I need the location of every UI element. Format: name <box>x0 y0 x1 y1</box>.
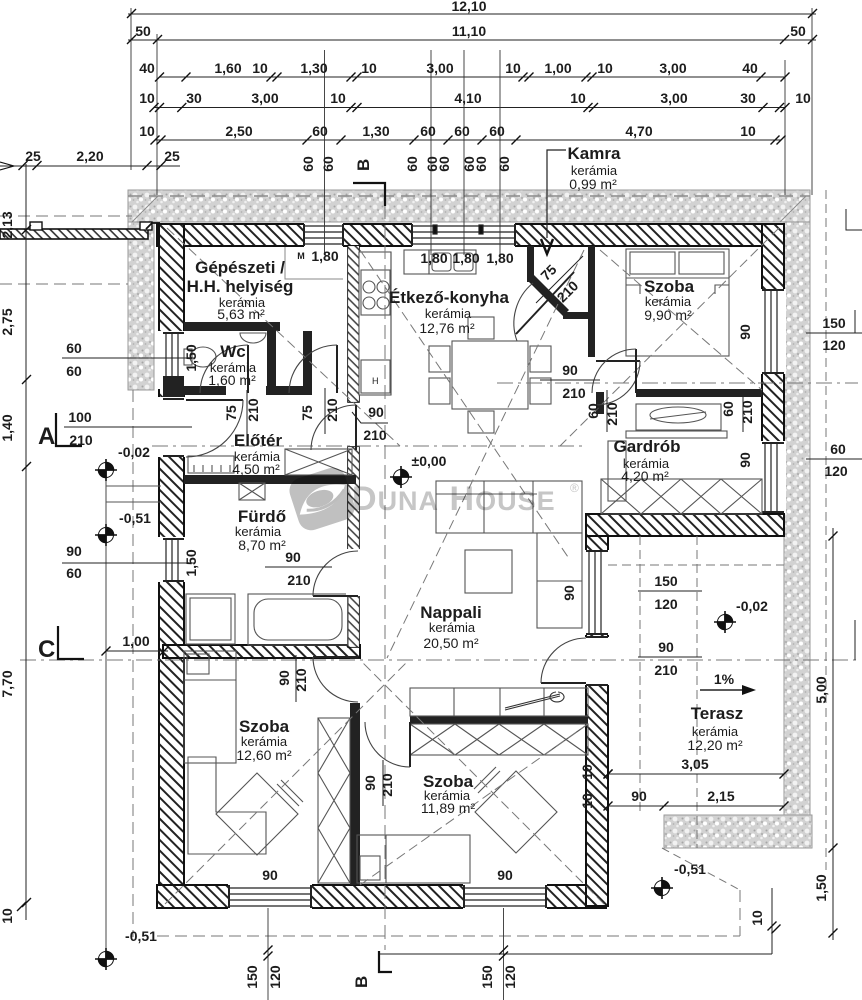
svg-text:10: 10 <box>252 60 268 76</box>
svg-text:1,00: 1,00 <box>122 633 149 649</box>
svg-text:1,50: 1,50 <box>813 874 829 901</box>
svg-text:10: 10 <box>139 123 155 139</box>
svg-text:90: 90 <box>737 452 753 468</box>
kitchen sink top <box>429 250 476 274</box>
svg-text:60: 60 <box>66 340 82 356</box>
svg-text:B: B <box>354 159 373 171</box>
svg-text:Gépészeti /: Gépészeti / <box>195 258 285 277</box>
szoba BL door <box>313 656 358 658</box>
svg-text:1,80: 1,80 <box>311 248 338 264</box>
svg-text:10: 10 <box>795 90 811 106</box>
svg-text:M: M <box>297 251 305 261</box>
svg-text:90: 90 <box>737 324 753 340</box>
tv board bottom of nappali <box>410 688 588 716</box>
ridge / section dash-dot lines <box>152 445 586 447</box>
window top small <box>304 226 343 244</box>
svg-text:90: 90 <box>497 867 513 883</box>
left retaining wall outside <box>0 222 160 239</box>
svg-text:40: 40 <box>742 60 758 76</box>
svg-text:Kamra: Kamra <box>568 144 621 163</box>
chair diamond bottom-left <box>216 773 298 855</box>
svg-text:kerámia: kerámia <box>429 620 476 635</box>
svg-text:4,50 m²: 4,50 m² <box>232 461 280 477</box>
svg-text:kerámia: kerámia <box>425 306 472 321</box>
svg-text:Gardrób: Gardrób <box>613 437 680 456</box>
main wall top <box>157 223 784 247</box>
svg-text:50: 50 <box>790 23 806 39</box>
svg-text:40: 40 <box>139 60 155 76</box>
svg-text:75: 75 <box>223 405 239 421</box>
window left bath <box>166 539 178 581</box>
svg-text:11,89 m²: 11,89 m² <box>421 800 476 816</box>
dashed joint line inside top insulation <box>128 195 810 197</box>
svg-text:12,60 m²: 12,60 m² <box>236 747 292 763</box>
window bottom left room <box>229 888 311 906</box>
insulation band left upper <box>128 222 154 390</box>
svg-text:60: 60 <box>66 565 82 581</box>
svg-text:210: 210 <box>363 427 387 443</box>
svg-text:90: 90 <box>362 775 378 791</box>
svg-text:3,00: 3,00 <box>659 60 686 76</box>
window left wc <box>166 333 178 388</box>
svg-text:-0,51: -0,51 <box>125 928 157 944</box>
door gap terrace wall <box>584 637 610 685</box>
svg-text:1,50: 1,50 <box>183 549 199 576</box>
svg-text:60: 60 <box>420 123 436 139</box>
svg-text:60: 60 <box>436 156 452 172</box>
svg-text:1,40: 1,40 <box>0 414 15 441</box>
svg-text:150: 150 <box>479 965 495 989</box>
svg-text:9,90 m²: 9,90 m² <box>644 307 692 323</box>
svg-text:60: 60 <box>489 123 505 139</box>
elevation star markers <box>95 459 736 970</box>
svg-text:30: 30 <box>186 90 202 106</box>
svg-text:4,10: 4,10 <box>454 90 481 106</box>
svg-text:-0,02: -0,02 <box>118 444 150 460</box>
window gap left wall bath <box>157 537 186 582</box>
wardrobe column between bottom rooms <box>318 718 350 883</box>
shelf under szoba TR <box>608 441 626 501</box>
svg-text:120: 120 <box>824 463 848 479</box>
window gap terrace wall <box>584 550 610 635</box>
sofa L <box>436 481 582 533</box>
svg-text:Előtér: Előtér <box>234 431 283 450</box>
svg-text:1,80: 1,80 <box>486 250 513 266</box>
svg-text:±0,00: ±0,00 <box>412 453 447 469</box>
svg-text:10: 10 <box>740 123 756 139</box>
partition vertical between rooms bottom <box>350 658 360 885</box>
svg-text:60: 60 <box>830 441 846 457</box>
bottom dashed elevation line <box>157 935 740 937</box>
svg-text:5,00: 5,00 <box>813 676 829 703</box>
svg-text:10: 10 <box>330 90 346 106</box>
szoba TR door <box>635 349 637 393</box>
coffee table <box>465 550 512 593</box>
svg-text:30: 30 <box>740 90 756 106</box>
window terrace wall <box>589 551 601 634</box>
bed top right room <box>626 249 729 356</box>
left vertical chain <box>25 164 27 920</box>
window labels 1,80 <box>297 248 514 266</box>
window niche lines gepeszeti <box>285 247 343 279</box>
insulation band top <box>128 190 812 848</box>
kamra bottom stub <box>563 312 589 319</box>
svg-text:1,60 m²: 1,60 m² <box>208 372 256 388</box>
svg-text:60: 60 <box>66 363 82 379</box>
svg-text:1,30: 1,30 <box>362 123 389 139</box>
svg-text:25: 25 <box>25 148 41 164</box>
svg-text:12,20 m²: 12,20 m² <box>687 737 743 753</box>
svg-text:1,80: 1,80 <box>452 250 479 266</box>
wall terrace side <box>586 536 608 906</box>
partition wc bottom / eloter top <box>184 386 226 395</box>
kamra left wall <box>527 246 534 282</box>
svg-text:2,15: 2,15 <box>707 788 734 804</box>
wall bottom of gardrob <box>586 514 784 536</box>
svg-text:Étkező-konyha: Étkező-konyha <box>389 288 510 307</box>
svg-text:5,63 m²: 5,63 m² <box>217 306 265 322</box>
svg-text:90: 90 <box>561 585 577 601</box>
svg-text:2,13: 2,13 <box>0 211 15 238</box>
insulation band right <box>784 222 810 848</box>
terrace dashed outline <box>608 564 784 566</box>
svg-text:1,50: 1,50 <box>183 344 199 371</box>
svg-text:12,76 m²: 12,76 m² <box>419 320 475 336</box>
svg-text:3,00: 3,00 <box>660 90 687 106</box>
window gap bottom left room <box>228 883 312 910</box>
svg-text:4,70: 4,70 <box>625 123 652 139</box>
kamra diagonal wall <box>527 274 569 316</box>
svg-text:90: 90 <box>66 543 82 559</box>
kamra right wall <box>588 246 595 357</box>
svg-text:10: 10 <box>570 90 586 106</box>
szoba BM door <box>409 722 411 767</box>
svg-text:10: 10 <box>139 90 155 106</box>
desk bottom-left <box>188 757 266 854</box>
svg-text:10: 10 <box>0 908 15 924</box>
window gap right wall bedroom <box>760 289 786 374</box>
svg-text:210: 210 <box>654 662 678 678</box>
svg-text:4,20 m²: 4,20 m² <box>621 468 669 484</box>
wall left <box>159 224 184 906</box>
svg-text:100: 100 <box>68 409 92 425</box>
svg-text:90: 90 <box>368 404 384 420</box>
svg-text:60: 60 <box>404 156 420 172</box>
kamra leader <box>547 150 566 238</box>
bottom witness lines + labels <box>106 470 504 1000</box>
window gap bottom middle room <box>463 883 547 910</box>
svg-text:90: 90 <box>285 549 301 565</box>
svg-text:1,80: 1,80 <box>420 250 447 266</box>
svg-text:H: H <box>372 376 379 386</box>
watermark duna house <box>286 464 579 533</box>
svg-text:3,00: 3,00 <box>426 60 453 76</box>
left outside dashed <box>0 215 132 217</box>
svg-text:150: 150 <box>822 315 846 331</box>
svg-text:10: 10 <box>579 793 595 809</box>
window gap top wall small (Wc niche) <box>304 223 343 247</box>
partition wc right <box>267 331 276 395</box>
bath bottom bearing wall <box>163 645 360 658</box>
window gap right wall wardrobe-room <box>760 441 786 514</box>
top dimension chains <box>0 8 816 255</box>
gardrob wardrobe X row <box>601 479 762 514</box>
eloter bench <box>188 456 234 473</box>
svg-text:210: 210 <box>379 773 395 797</box>
svg-text:60: 60 <box>585 403 601 419</box>
svg-text:8,70 m²: 8,70 m² <box>238 537 286 553</box>
partition niche right <box>303 331 312 395</box>
rotated inner labels <box>183 261 755 809</box>
wall bottom <box>157 885 606 908</box>
svg-text:120: 120 <box>822 337 846 353</box>
svg-text:90: 90 <box>658 639 674 655</box>
svg-text:-0,02: -0,02 <box>736 598 768 614</box>
svg-text:2,75: 2,75 <box>0 308 15 335</box>
svg-text:20,50 m²: 20,50 m² <box>423 635 479 651</box>
svg-text:90: 90 <box>262 867 278 883</box>
kamra diagonal door <box>516 272 574 334</box>
right vertical chain 5,00 <box>379 209 862 954</box>
bath door <box>313 595 358 597</box>
witness verticals <box>131 8 812 255</box>
top dim labels <box>25 0 811 164</box>
svg-text:120: 120 <box>502 965 518 989</box>
svg-text:210: 210 <box>562 385 586 401</box>
kitchen counter <box>359 252 391 395</box>
svg-text:Wc: Wc <box>220 342 246 361</box>
svg-text:3,05: 3,05 <box>681 756 708 772</box>
svg-text:210: 210 <box>245 398 261 422</box>
terrace door <box>541 682 586 684</box>
svg-text:210: 210 <box>324 398 340 422</box>
rotated 60 labels top <box>300 156 512 172</box>
wc toilet <box>190 347 216 367</box>
partition gepeszeti bottom <box>184 322 280 331</box>
wc sink <box>240 333 266 343</box>
svg-text:7,70: 7,70 <box>0 670 15 697</box>
svg-text:120: 120 <box>267 965 283 989</box>
dining table <box>452 341 528 409</box>
svg-text:®: ® <box>570 481 579 495</box>
svg-text:10: 10 <box>749 910 765 926</box>
bed bottom-left room <box>184 651 236 763</box>
wc door <box>247 345 249 393</box>
svg-text:10: 10 <box>579 764 595 780</box>
svg-text:90: 90 <box>631 788 647 804</box>
ticks <box>0 9 817 170</box>
entrance door <box>186 399 243 401</box>
entrance door gap left wall <box>157 397 186 457</box>
bed bottom-middle room <box>357 835 470 883</box>
svg-text:210: 210 <box>287 572 311 588</box>
svg-text:150: 150 <box>654 573 678 589</box>
entrance step lines <box>106 486 161 502</box>
inner door/window dimension labels <box>62 256 784 806</box>
svg-text:1,00: 1,00 <box>544 60 571 76</box>
window top kitchen <box>412 226 515 244</box>
svg-text:A: A <box>38 423 55 450</box>
svg-text:10: 10 <box>505 60 521 76</box>
svg-text:H.H. helyiség: H.H. helyiség <box>187 277 294 296</box>
svg-text:75: 75 <box>299 405 315 421</box>
svg-text:1%: 1% <box>714 671 735 687</box>
bath tub <box>248 594 348 645</box>
window right gardrob <box>765 443 777 512</box>
chair diamond bottom-middle <box>475 771 557 853</box>
window right bedroom <box>765 290 777 373</box>
gardrob dressing table <box>636 404 721 430</box>
svg-text:12,10: 12,10 <box>451 0 486 14</box>
svg-text:90: 90 <box>562 362 578 378</box>
eloter-kitchen door <box>355 405 357 450</box>
svg-text:1,30: 1,30 <box>300 60 327 76</box>
svg-text:B: B <box>352 976 371 988</box>
svg-text:C: C <box>38 636 55 663</box>
svg-text:60: 60 <box>312 123 328 139</box>
roof hip dashed diagonals <box>167 228 400 446</box>
washing machine <box>186 594 235 644</box>
svg-text:1,60: 1,60 <box>214 60 241 76</box>
svg-text:210: 210 <box>293 668 309 692</box>
wall right upper <box>762 224 784 536</box>
window bottom middle room <box>464 888 546 906</box>
niche door <box>336 345 338 393</box>
partition vertical kitchen-left <box>348 246 359 402</box>
svg-text:3,00: 3,00 <box>251 90 278 106</box>
kitchen-hall door <box>596 360 640 362</box>
svg-text:DUNA HOUSE: DUNA HOUSE <box>352 480 556 518</box>
gardrob left stub <box>596 392 604 414</box>
wall szoba TR / gardrob <box>636 389 762 397</box>
door gap in that wall <box>349 659 361 703</box>
room labels <box>187 144 744 816</box>
partition eloter bottom (bath top) <box>184 475 356 484</box>
svg-text:60: 60 <box>454 123 470 139</box>
svg-text:10: 10 <box>597 60 613 76</box>
window gap top wall kitchen <box>412 223 515 247</box>
svg-text:-0,51: -0,51 <box>119 510 151 526</box>
svg-text:0,99 m²: 0,99 m² <box>569 176 617 192</box>
partition bottom-middle room top <box>410 716 588 724</box>
insulation band terrace bottom <box>664 815 812 848</box>
svg-text:120: 120 <box>654 596 678 612</box>
svg-text:Terasz: Terasz <box>691 704 744 723</box>
svg-text:210: 210 <box>739 400 755 424</box>
svg-text:60: 60 <box>720 401 736 417</box>
svg-text:60: 60 <box>300 156 316 172</box>
svg-text:60: 60 <box>473 156 489 172</box>
svg-text:11,10: 11,10 <box>452 23 486 39</box>
window gap left wall wc <box>157 331 186 389</box>
svg-text:60: 60 <box>496 156 512 172</box>
svg-text:25: 25 <box>164 148 180 164</box>
svg-text:60: 60 <box>320 156 336 172</box>
svg-text:-0,51: -0,51 <box>674 861 706 877</box>
svg-text:150: 150 <box>244 965 260 989</box>
svg-text:210: 210 <box>604 402 620 426</box>
wardrobe row bottom-middle room <box>410 724 588 755</box>
eloter wardrobe X <box>285 449 352 475</box>
svg-text:50: 50 <box>135 23 151 39</box>
svg-text:2,50: 2,50 <box>225 123 252 139</box>
svg-text:2,20: 2,20 <box>76 148 103 164</box>
entrance threshold <box>163 376 184 397</box>
svg-text:10: 10 <box>361 60 377 76</box>
svg-text:90: 90 <box>276 670 292 686</box>
right window dims <box>806 333 862 459</box>
